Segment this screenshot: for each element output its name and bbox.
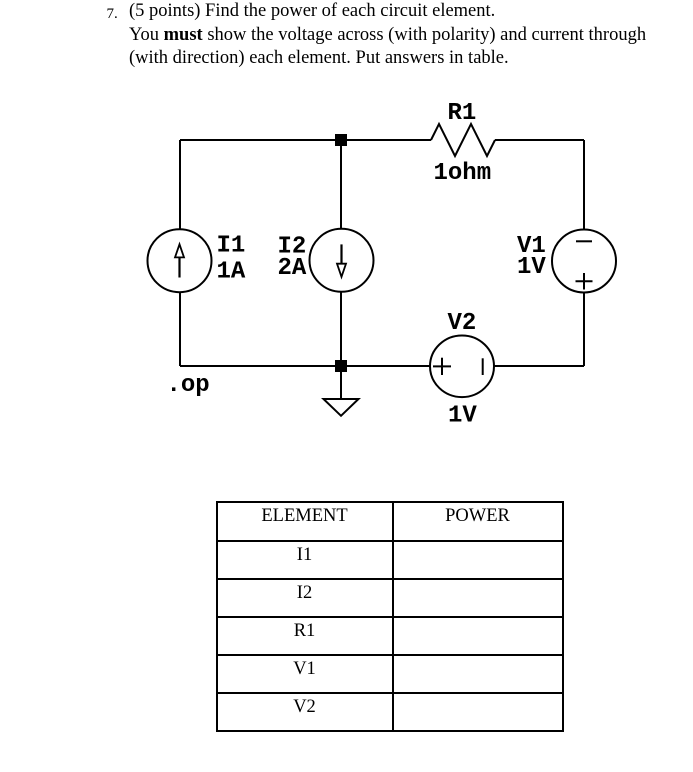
current source I1 circle xyxy=(148,229,212,292)
wire: right vertical upper (top-right corner to V1 top) xyxy=(583,140,585,230)
wire: middle vertical lower (I2 bottom to bottom junction) xyxy=(340,292,342,366)
svg-text:.op: .op xyxy=(167,372,210,399)
svg-text:1ohm: 1ohm xyxy=(434,160,492,187)
svg-text:I1: I1 xyxy=(217,233,246,260)
wire: right vertical lower (V1 bottom to bottom wire) xyxy=(583,292,585,366)
current source I2 arrow xyxy=(337,244,346,276)
voltage source V2 circle xyxy=(430,336,494,398)
wire: middle vertical upper (top junction to I2 top) xyxy=(340,140,342,229)
wire: top-left horizontal (corner to top junction) xyxy=(180,139,341,141)
svg-text:R1: R1 xyxy=(448,100,477,127)
current source I1 arrow xyxy=(175,244,184,277)
node: top junction square xyxy=(335,134,347,146)
wire: top junction to resistor left end xyxy=(341,139,431,141)
svg-text:1V: 1V xyxy=(448,403,477,430)
answer table xyxy=(216,501,564,732)
voltage source V1 circle xyxy=(552,230,616,293)
V1 minus sign xyxy=(576,240,592,242)
wire: bottom-right horizontal (V2 right to right corner) xyxy=(494,365,584,367)
V1 plus sign xyxy=(576,273,593,290)
ground symbol xyxy=(324,366,359,416)
svg-text:1A: 1A xyxy=(217,258,246,285)
current source I2 circle xyxy=(310,229,374,292)
V2 plus sign xyxy=(433,358,451,375)
circuit schematic xyxy=(0,0,693,470)
problem statement text xyxy=(129,0,646,71)
wire: left vertical lower (I1 bottom to bottom-left corner) xyxy=(179,292,181,366)
V2 minus bar xyxy=(482,358,484,375)
node: bottom junction square xyxy=(335,360,347,372)
svg-text:2A: 2A xyxy=(278,255,307,282)
svg-text:V2: V2 xyxy=(448,310,477,337)
wire: resistor right end to top-right corner xyxy=(495,139,584,141)
wire: bottom-left horizontal (corner to V2 left) xyxy=(180,365,430,367)
resistor R1 zigzag xyxy=(431,124,495,156)
problem number 7. xyxy=(107,6,118,22)
wire: left vertical upper (corner down to I1 top) xyxy=(179,140,181,230)
svg-text:1V: 1V xyxy=(517,254,546,281)
